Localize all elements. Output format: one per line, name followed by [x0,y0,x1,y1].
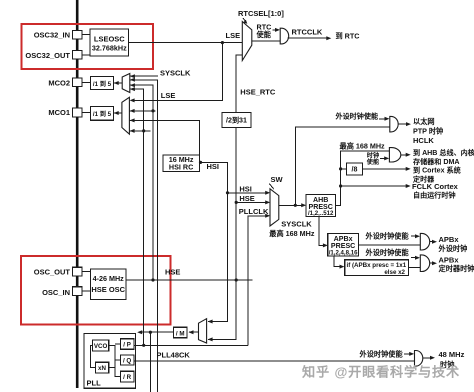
wire PTP enable arrow [379,118,387,120]
wire APBx gate output [430,241,435,243]
svg-text:PTP 时钟: PTP 时钟 [413,126,443,135]
wire RTC mux output [252,40,280,42]
wire FCLK row [341,185,409,187]
svg-text:4-26 MHz: 4-26 MHz [93,274,125,283]
wire APBx timer gate output [430,262,435,264]
svg-text:最高 168 MHz: 最高 168 MHz [340,141,386,150]
divider /Q [121,355,134,365]
svg-text:定时器时钟: 定时器时钟 [438,264,474,273]
node /P output x PLL bus [142,344,145,347]
wire to /Q [115,359,121,361]
arrowhead into MCO2 divider [114,81,119,85]
oscillator HSE OSC box [91,269,127,300]
svg-text:/1,2,..512: /1,2,..512 [308,210,334,217]
node /M output branch [149,331,152,334]
node SYSCLK PTP tap [294,204,297,207]
svg-text:PLLCLK: PLLCLK [239,207,269,216]
svg-text:MCO2: MCO2 [48,78,70,87]
svg-text:SW: SW [271,175,284,184]
wire MCO1 mux in3 (HSI tap) [130,120,200,162]
svg-text:OSC32_OUT: OSC32_OUT [25,51,70,60]
wire APBx enable arrow [411,235,418,237]
svg-text:自由运行时钟: 自由运行时钟 [413,191,456,200]
svg-text:HCLK: HCLK [413,136,434,145]
svg-text:PLL48CK: PLL48CK [157,351,191,360]
svg-text:外设时钟使能: 外设时钟使能 [336,111,379,120]
svg-text:MCO1: MCO1 [48,108,70,117]
svg-text:HSE: HSE [165,268,180,277]
node HCLK /8 tap [339,167,342,170]
svg-text:OSC_IN: OSC_IN [42,288,70,297]
wire RTCSEL select arrow [243,18,246,22]
node MCO1 in2 x HSE bus [151,109,154,112]
wire AHB to APBx [319,217,326,246]
gate AND HCLK [389,148,400,162]
wire /P output (PLLCLK) [134,344,248,346]
block xN [95,362,108,373]
svg-text:LSE: LSE [226,31,241,40]
svg-text:RTCCLK: RTCCLK [292,28,323,37]
wire AHB output and HCLK riser [336,151,390,205]
wire VCO to dividers [109,346,121,377]
box if APBx presc [345,260,409,276]
wire /8 to Cortex timer [363,168,409,170]
svg-text:RTCSEL[1:0]: RTCSEL[1:0] [238,9,284,18]
gate AND PTP [390,116,398,131]
node HSE x HSE bus [235,278,238,281]
block VCO [93,340,109,351]
wire MCO2 mux in4 (PLL bus) [130,89,144,345]
divider /P [121,339,134,350]
wire PLL mux output to /M [189,331,199,333]
svg-text:最高 168 MHz: 最高 168 MHz [269,229,315,238]
wire OSC_OUT to HSE OSC [82,271,91,273]
svg-text:SYSCLK: SYSCLK [281,220,312,229]
wire OSC32_IN to LSEOSC [82,34,90,36]
svg-text:VCO: VCO [94,343,108,350]
svg-text:LSEOSC: LSEOSC [94,35,125,44]
svg-text:外设时钟使能: 外设时钟使能 [365,232,410,241]
svg-text:OSC_OUT: OSC_OUT [34,268,71,277]
wire MCO2 mux in2 [130,80,157,392]
svg-text:以太网: 以太网 [413,117,435,126]
pin OSC32_OUT [73,51,83,60]
divider /R [121,371,134,382]
gate AND APBx timer [420,255,429,272]
svg-text:/2到31: /2到31 [226,116,247,125]
node MCO1 in4 x PLL bus [142,129,145,132]
oscillator LSEOSC box [90,29,129,56]
svg-text:存储器和 DMA: 存储器和 DMA [413,157,460,166]
wire OSC_IN to HSE OSC [82,290,91,292]
node HSE x MCO bus [151,278,154,281]
wire /M output to PLL [139,331,174,333]
node LSE branch [221,41,224,44]
pin OSC_OUT [73,267,83,276]
svg-text:使能: 使能 [366,158,380,166]
svg-text:32.768kHz: 32.768kHz [92,44,127,53]
node HSE bus x SW HSE row [235,201,238,204]
wire OSC32_OUT to LSEOSC [82,54,90,56]
divider box /2to31 [222,113,251,128]
arrowhead into MCO1 divider [114,111,119,115]
node HSI output branch [199,161,202,164]
wire SW select tick [269,184,274,190]
wire HCLK enable arrow [380,157,387,159]
wire SYSCLK output to AHB PRESC [279,204,305,206]
wire MCO2 mux in3 [130,85,153,280]
divider box /1to5 (MCO2) [91,77,114,90]
wire /Q output (PLL48CK) [134,360,415,362]
wire APBx to if box [334,256,343,267]
svg-text:48 MHz: 48 MHz [439,350,465,359]
svg-text:/1,2,4,8,16: /1,2,4,8,16 [329,250,358,257]
wire HSE_RTC into RTC mux [236,55,242,113]
wire MCO2 mux output [114,82,122,84]
svg-text:/ M: / M [176,330,185,337]
wire MCO1 mux in4 (PLL tap) [130,130,151,132]
wire PLLCLK row to SW mux [248,216,269,345]
mux MCO2 [122,74,130,93]
svg-text:HSI RC: HSI RC [169,163,193,172]
wire VCO feedback loop [90,346,95,368]
svg-text:HSI: HSI [239,184,252,193]
svg-text:外设时钟使能: 外设时钟使能 [365,248,410,257]
svg-text:外设时钟使能: 外设时钟使能 [359,349,404,358]
wire HSE bus (below /2to31 down to PLL mux) [208,128,236,340]
svg-text:LSE: LSE [161,91,176,100]
wire MCO2 pin to divider [82,81,91,83]
mux PLL source [199,319,207,343]
divider box /1to5 (MCO1) [91,106,114,120]
wire to /P [115,343,121,345]
wire SYSCLK up to PTP gate [295,127,390,205]
svg-text:else x2: else x2 [384,269,405,276]
mux RTC source [242,22,252,61]
wire RTCCLK output [288,37,330,39]
wire 48MHz enable arrow [404,353,412,355]
svg-text:OSC32_IN: OSC32_IN [34,31,70,40]
prescaler AHB PRESC box [306,195,336,217]
node HSI bus x SW HSI row [226,191,229,194]
wire HSI row to SW mux [228,192,269,194]
svg-text:SYSCLK: SYSCLK [160,69,191,78]
red highlight box HSE [21,256,171,325]
wire if box to timer gate [409,266,421,268]
wire HSE main row [126,279,253,281]
wire PTP output arrow [398,123,409,125]
gate AND APBx peripheral [420,233,429,250]
svg-text:APBx: APBx [439,235,460,244]
wire LSE drop to MCO1 [131,43,222,101]
svg-text:知乎 @开眼看科学与技术: 知乎 @开眼看科学与技术 [302,364,460,380]
svg-text:/ Q: / Q [123,358,131,365]
svg-text:外设时钟: 外设时钟 [438,244,468,253]
svg-text:/1 到 5: /1 到 5 [93,80,112,88]
chip boundary thick line [76,0,79,388]
wire MCO1 mux output [114,112,122,114]
wire HSE row to SW mux [236,201,268,203]
oscillator HSI RC box [163,155,199,171]
gate AND RTC [280,28,289,44]
wire to /8 box [341,168,347,170]
svg-text:到 AHB 总线、内核: 到 AHB 总线、内核 [413,148,474,157]
divider /M box [174,327,188,338]
wire HCLK output arrow [401,154,409,156]
wire MCO1 pin to divider [82,112,91,114]
wire APBx PRESC output [359,244,421,246]
svg-text:到 Cortex 系统: 到 Cortex 系统 [413,166,461,175]
arrowhead MCO1 in1 (LSE) [130,98,135,102]
wire xN output [109,367,115,369]
wire 48MHz gate output [423,357,433,359]
svg-text:/ P: / P [123,342,131,349]
wire HSI output [199,162,227,321]
prescaler APBx PRESC box [328,234,359,257]
PLL outer box [84,334,136,389]
wire RTC enable arrow [273,29,279,31]
svg-text:PLL: PLL [87,379,102,388]
svg-text:使能: 使能 [256,30,272,39]
svg-text:xN: xN [98,365,106,372]
wire LSE main (LSEOSC output to RTC mux) [129,42,243,44]
pin OSC32_IN [73,30,83,39]
svg-text:/8: /8 [352,166,358,174]
pin MCO2 [73,78,83,87]
mux MCO1 [122,97,129,134]
wire MCO2 mux in1 SYSCLK stub [130,75,158,77]
node HCLK FCLK tap [339,184,342,187]
pin OSC_IN [73,287,83,296]
mux SW [270,189,279,226]
pin MCO1 [73,108,83,117]
gate AND 48MHz [415,351,423,367]
svg-text:/ R: / R [123,374,131,381]
svg-text:HSI: HSI [207,162,220,171]
svg-text:HSE: HSE [239,194,254,203]
wire APBx timer enable arrow [411,257,418,259]
svg-text:if (APBx presc = 1x1: if (APBx presc = 1x1 [347,262,407,269]
svg-text:到 RTC: 到 RTC [336,32,360,41]
wire /M branch down [149,332,151,392]
svg-text:HSE_RTC: HSE_RTC [240,88,276,97]
svg-text:/1 到 5: /1 到 5 [93,110,112,118]
svg-text:HSE OSC: HSE OSC [91,285,125,294]
svg-text:FCLK Cortex: FCLK Cortex [412,182,459,191]
wire MCO1 mux in2 (HSE tap) [130,110,156,112]
red highlight box LSE [22,24,154,69]
divider box /8 [347,163,363,175]
